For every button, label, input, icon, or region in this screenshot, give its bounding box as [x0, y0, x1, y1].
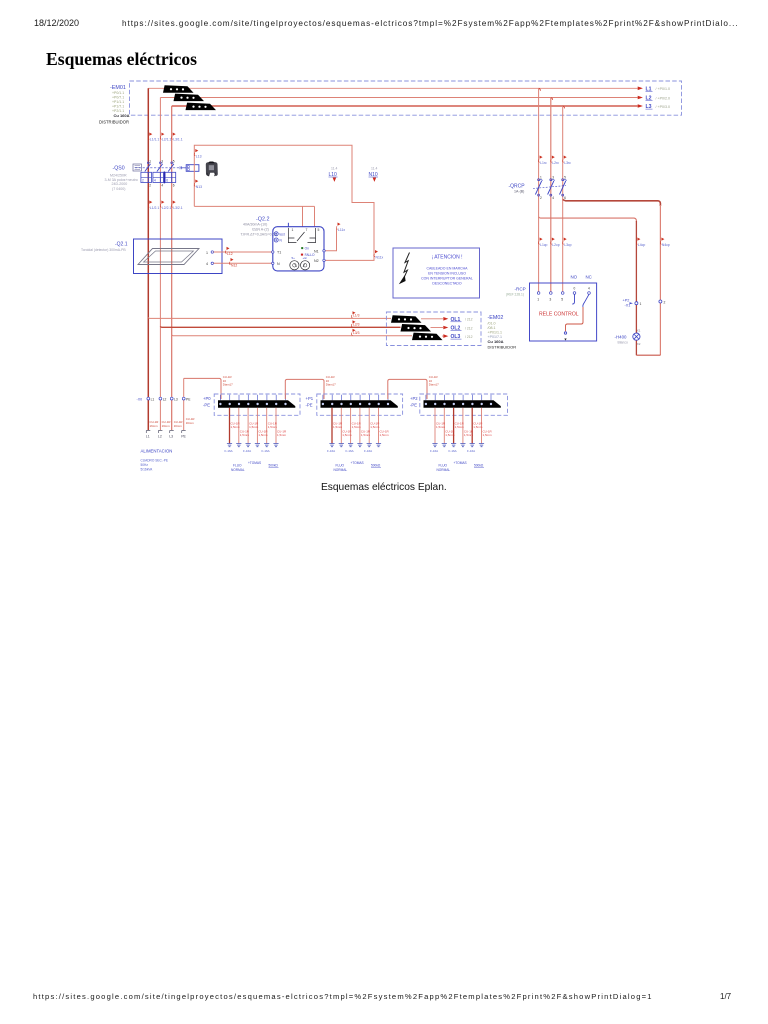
svg-text:1/7: 1/7 [720, 992, 732, 1001]
QS0 linkage dashed line [135, 167, 186, 169]
relay RCP body [530, 283, 597, 341]
svg-text:N12: N12 [231, 263, 237, 267]
svg-text:4: 4 [206, 262, 208, 266]
svg-text:L2/3: L2/3 [353, 323, 360, 327]
RCP pin 1 [537, 292, 540, 302]
feeder end terminal L3 [169, 431, 174, 439]
feeder end terminal PE [181, 431, 186, 439]
svg-text:L12: L12 [227, 252, 233, 256]
svg-text:I2ΔN A-(2): I2ΔN A-(2) [252, 227, 269, 231]
Q2.2 internal switch [288, 228, 315, 241]
svg-text:Esquemas eléctricos: Esquemas eléctricos [46, 49, 197, 69]
svg-text:-Q2.1: -Q2.1 [115, 241, 128, 247]
svg-text:Blanco: Blanco [618, 341, 628, 345]
EM02 busbar clamp 1 [391, 315, 422, 323]
svg-text:16mm: 16mm [162, 424, 171, 428]
svg-text:L1: L1 [151, 397, 155, 401]
QRCP linkage dashed [533, 186, 566, 189]
fuse divider accent [163, 172, 165, 184]
P0 load names [231, 461, 279, 472]
wire L2 bus [160, 97, 637, 99]
wire mark loop lower [194, 180, 202, 190]
wire lamp bottom return [636, 354, 660, 356]
label +P2 -PE [410, 396, 418, 408]
svg-text:6: 6 [564, 196, 566, 200]
P2 load names [437, 461, 485, 472]
wire branch to EM02 phase 1 [148, 317, 391, 318]
wire QRCP column 1 [538, 88, 540, 292]
wire label hook P2 [429, 375, 439, 387]
svg-text:https://sites.google.com/site/: https://sites.google.com/site/tingelproy… [122, 19, 739, 28]
wire hook feed P0 [184, 378, 221, 399]
svg-text:T1: T1 [277, 251, 281, 255]
svg-text:L2: L2 [158, 435, 162, 439]
svg-text:6: 6 [166, 179, 168, 183]
svg-text:16mm: 16mm [186, 421, 195, 425]
svg-text:L1cp: L1cp [540, 243, 547, 247]
P1 fuse labels [327, 449, 372, 453]
QS0 auxiliary box [180, 165, 199, 172]
svg-text:L1: L1 [146, 435, 150, 439]
svg-text:L1/1.1: L1/1.1 [150, 138, 160, 142]
P2 circuit labels row A [436, 422, 483, 430]
wire QRCP column 3 [562, 106, 564, 292]
svg-text:11.4: 11.4 [331, 167, 337, 171]
arrow OL1 [443, 317, 472, 323]
svg-text:1,5mm: 1,5mm [436, 425, 446, 429]
svg-text:L4cp: L4cp [638, 243, 645, 247]
svg-text:50Hz: 50Hz [141, 463, 149, 467]
P2 fuse labels [430, 449, 475, 453]
svg-text:3: 3 [161, 160, 163, 164]
svg-text:https://sites.google.com/site/: https://sites.google.com/site/tingelproy… [33, 992, 653, 1001]
P0 circuit labels row B [240, 430, 287, 438]
wire drop to Q2.2 pin 5 [314, 206, 316, 226]
terminal -X1 pin 2 [659, 300, 666, 304]
busbar clamp 3 [186, 103, 217, 111]
RCP pin NO [573, 287, 576, 295]
svg-text:1: 1 [640, 302, 642, 306]
wire L3 bus [172, 105, 638, 107]
terminal +P2 -X1 [623, 299, 642, 308]
wire mark L10 [336, 223, 345, 233]
wire label PE column [186, 417, 195, 425]
svg-text:L3/2.1: L3/2.1 [173, 206, 183, 210]
distributor EM02 dashed enclosure [386, 312, 481, 346]
panel P1 dashed enclosure [317, 394, 403, 415]
svg-text:+P1: +P1 [306, 396, 314, 401]
junction tick L2 to QRCP [551, 98, 553, 100]
svg-text:/ +P0/3.0: / +P0/3.0 [656, 105, 671, 109]
RCP internal red wire [566, 307, 584, 331]
svg-text:1: 1 [540, 176, 542, 180]
wire QRCP column 2 [550, 98, 552, 293]
wire drop to Q2.2 pin 1 [302, 206, 304, 226]
label +P0 -PE [203, 396, 211, 408]
svg-text:4: 4 [588, 287, 590, 291]
Q2.2 top pin stub [287, 223, 289, 228]
svg-text:+TOMAS: +TOMAS [248, 461, 261, 465]
node N10 [369, 167, 379, 182]
svg-text:1,5mm: 1,5mm [445, 433, 455, 437]
svg-text:16mm: 16mm [150, 424, 159, 428]
QS0 pole 2 [157, 160, 164, 172]
wire mark RCP 1 [538, 238, 547, 248]
terminal strip P2 [424, 395, 501, 408]
wire phase column L3 [171, 106, 173, 430]
svg-text:L1rc: L1rc [540, 161, 547, 165]
node L10 [329, 167, 338, 182]
wire clamp3 to OL3 [442, 335, 443, 337]
arrow OL3 [443, 334, 472, 340]
svg-text:-EM02: -EM02 [488, 315, 504, 321]
svg-text:L3: L3 [174, 397, 178, 401]
fuse box pole 1 [141, 172, 152, 182]
wire label L1 column [150, 420, 159, 428]
junction tick L3 to QRCP [563, 106, 565, 108]
svg-text:NO: NO [571, 275, 578, 280]
svg-text:+P1/7.1: +P1/7.1 [112, 105, 124, 109]
distributor EM01 dashed enclosure [130, 81, 682, 115]
svg-text:1,5mm: 1,5mm [249, 425, 259, 429]
wire label L2 column [162, 420, 171, 428]
svg-text:PE: PE [181, 435, 186, 439]
svg-text:500kΩ: 500kΩ [269, 464, 279, 468]
svg-text:1,5mm: 1,5mm [455, 425, 465, 429]
svg-text:/ 212: / 212 [465, 335, 473, 339]
svg-text:5: 5 [564, 176, 566, 180]
svg-text:3: 3 [549, 298, 551, 302]
wire mark lamp feed [636, 238, 645, 248]
svg-text:2: 2 [149, 184, 151, 188]
Q2.2 dial 2 [301, 256, 310, 270]
wire label L3 column [174, 420, 183, 428]
QS0 pole 1 [145, 160, 152, 172]
junction tick L1 to QRCP [539, 88, 541, 90]
svg-text:N1: N1 [314, 250, 319, 254]
svg-text:F-16A: F-16A [262, 449, 270, 453]
Q2.2 dial 1 [290, 256, 299, 270]
wire mark N feed [229, 258, 237, 267]
terminal strip P0 [218, 395, 295, 408]
RCP NC contact blade [583, 294, 589, 307]
RCP bottom pin [564, 332, 566, 341]
svg-text:/01.0: /01.0 [488, 322, 496, 326]
wire mark L3 upper [172, 133, 183, 142]
panel P2 dashed enclosure [420, 394, 508, 415]
svg-text:X2: X2 [637, 342, 641, 346]
svg-text:EN TENSION INCLUSO: EN TENSION INCLUSO [428, 272, 466, 276]
svg-text:Cu 160A: Cu 160A [114, 113, 130, 118]
svg-text:1,5mm: 1,5mm [258, 433, 268, 437]
svg-text:1,5mm: 1,5mm [231, 425, 241, 429]
svg-text:L3rc: L3rc [564, 161, 571, 165]
Q2.1 pin 1 [206, 251, 214, 255]
QRCP pole 2 [548, 176, 555, 200]
EM02 busbar clamp 3 [412, 333, 443, 341]
svg-text:L13: L13 [196, 155, 202, 159]
svg-text:Diam17: Diam17 [326, 383, 336, 387]
svg-text:1,5mm: 1,5mm [342, 433, 352, 437]
svg-text:+P1/1.1: +P1/1.1 [112, 100, 124, 104]
wire Q2.1 pin4 to Q2.2 N [214, 262, 273, 264]
svg-text:¡ ATENCION !: ¡ ATENCION ! [431, 255, 462, 261]
svg-text:L1/3: L1/3 [353, 313, 360, 317]
svg-text:(7 0400): (7 0400) [112, 187, 125, 191]
svg-text:F-16A: F-16A [346, 449, 354, 453]
Q2.2 pin N1 [314, 250, 325, 254]
svg-text:+P0: +P0 [203, 396, 211, 401]
fuse box pole 2 [153, 172, 164, 182]
wire mark EM02 feed 3 [351, 329, 359, 336]
svg-text:F-16A: F-16A [467, 449, 475, 453]
arrow L1 [638, 87, 643, 91]
wire PE column [183, 378, 185, 430]
svg-text:1,5mm: 1,5mm [464, 433, 474, 437]
warning panel frame [393, 248, 480, 298]
wire QRCP pole3 to lamp branch [563, 200, 661, 207]
svg-text:/ +P0/2.0: / +P0/2.0 [656, 96, 671, 100]
svg-text:L3cp: L3cp [564, 243, 571, 247]
svg-text:+TOMAS: +TOMAS [454, 461, 467, 465]
svg-text:DISTRIBUIDOR: DISTRIBUIDOR [99, 120, 129, 125]
wire mark EM02 feed 2 [351, 320, 359, 327]
wire hook feed P1 [285, 379, 324, 399]
QS0 pole 3 [168, 160, 175, 172]
svg-text:11.4: 11.4 [371, 167, 377, 171]
wire mark L2 upper [160, 133, 171, 142]
wire L1 bus [148, 87, 637, 89]
svg-text:-X0: -X0 [137, 397, 143, 401]
svg-text:16mm: 16mm [174, 424, 183, 428]
feeder end terminal L2 [158, 431, 163, 439]
svg-text:T.IFR.ΔT=0,3A/S=0,08: T.IFR.ΔT=0,3A/S=0,08 [241, 232, 277, 236]
control loop wire bottom [194, 205, 314, 207]
busbar clamp 2 [174, 94, 205, 102]
P2 load terminals [432, 444, 437, 447]
svg-text:-QS0: -QS0 [113, 165, 125, 171]
svg-text:+P0/7.1: +P0/7.1 [112, 96, 124, 100]
svg-text:Esquemas eléctricos Eplan.: Esquemas eléctricos Eplan. [321, 482, 447, 493]
wire hook feed P2 [388, 379, 427, 399]
P0 load wires [229, 408, 231, 444]
QS0 handle icon [133, 164, 142, 171]
svg-text:1,5mm: 1,5mm [240, 433, 250, 437]
svg-text:500kΩ: 500kΩ [371, 464, 381, 468]
P1 load wires [331, 408, 333, 444]
P1 load names [334, 461, 382, 472]
wire label hook P1 [326, 375, 336, 387]
control loop wire top [194, 145, 374, 260]
svg-text:L2rc: L2rc [552, 161, 559, 165]
svg-text:7: 7 [306, 228, 308, 232]
svg-text:NORMAL: NORMAL [437, 468, 451, 472]
svg-text:F-16A: F-16A [449, 449, 457, 453]
svg-text:+P01/1.1: +P01/1.1 [488, 331, 503, 335]
RCP NO contact [572, 294, 574, 304]
Q2.2 N button [274, 238, 282, 243]
wire mark QRCP 2 upper [551, 156, 560, 166]
transducer Q2.1 box [134, 239, 223, 274]
svg-text:F-16A: F-16A [243, 449, 251, 453]
svg-text:-H400: -H400 [615, 335, 628, 340]
svg-text:(REF:128.1): (REF:128.1) [506, 293, 524, 297]
arrow L2 [638, 96, 643, 100]
svg-text:L3/1.1: L3/1.1 [173, 138, 183, 142]
svg-text:18/12/2020: 18/12/2020 [34, 18, 79, 28]
svg-text:Cu 160A: Cu 160A [488, 339, 504, 344]
svg-text:4: 4 [161, 184, 163, 188]
wire mark T1 feed [225, 247, 232, 256]
svg-text:+P2: +P2 [410, 396, 418, 401]
wire mark RCP 3 [563, 238, 572, 248]
Q2.1 toroid plate symbol [138, 249, 199, 265]
wire Q2.1 pin1 to Q2.2 T1 [214, 251, 273, 253]
svg-text:/ +P0/1.0: / +P0/1.0 [656, 87, 671, 91]
svg-text:5: 5 [173, 160, 175, 164]
svg-text:N4cp: N4cp [662, 243, 670, 247]
svg-text:4: 4 [154, 179, 156, 183]
svg-text:ALIMENTACION: ALIMENTACION [141, 449, 173, 454]
svg-text:On: On [305, 247, 309, 251]
P2 load wires [434, 408, 436, 444]
label +P1 -PE [306, 396, 314, 408]
svg-text:L3: L3 [169, 435, 173, 439]
busbar clamp 1 [163, 85, 194, 93]
Q2.2 pin T1 [272, 251, 282, 255]
P0 load terminals [227, 444, 232, 447]
svg-text:40A/30mA-(10): 40A/30mA-(10) [243, 222, 267, 226]
svg-text:1,5mm: 1,5mm [473, 425, 483, 429]
svg-text:1,5mm: 1,5mm [277, 433, 287, 437]
fuse box pole 3 [165, 172, 176, 182]
svg-text:/ 212: / 212 [465, 318, 473, 322]
svg-text:0: 0 [574, 287, 576, 291]
svg-text:500kΩ: 500kΩ [474, 464, 484, 468]
Q2.2 indicator fault [301, 253, 315, 257]
svg-text:F-16A: F-16A [225, 449, 233, 453]
svg-text:X1: X1 [637, 329, 641, 333]
svg-text:Diam17: Diam17 [223, 383, 233, 387]
terminal block X0 row [137, 397, 192, 401]
svg-text:5: 5 [561, 298, 563, 302]
svg-text:CON INTERRUPTOR GENERAL: CON INTERRUPTOR GENERAL [421, 277, 473, 281]
wire branch to EM02 phase 3 [172, 335, 412, 336]
svg-text:+Θ: +Θ [303, 256, 308, 260]
P0 fuse labels [225, 449, 270, 453]
svg-text:1: 1 [206, 251, 208, 255]
svg-text:5: 5 [318, 228, 320, 232]
Q2.2 indicator On [301, 247, 309, 251]
Q2.1 pin 4 [206, 262, 214, 266]
svg-text:test: test [280, 232, 285, 236]
QRCP pole 1 [535, 176, 542, 200]
QRCP pole 3 [560, 176, 567, 200]
svg-text:L2/2.1: L2/2.1 [162, 206, 172, 210]
lamp H400 [615, 329, 641, 346]
wire L10 to Q2.2 N1 [324, 229, 337, 251]
svg-text:-PE: -PE [410, 403, 417, 408]
Q2.2 pin N left [272, 262, 280, 266]
svg-text:2: 2 [664, 300, 666, 304]
svg-text:+TOMAS: +TOMAS [351, 461, 364, 465]
wire label hook P0 [223, 375, 233, 387]
P0 circuit labels row A [231, 422, 278, 430]
wire branch to EM02 phase 2 [160, 326, 400, 327]
svg-text:5+: 5+ [292, 256, 296, 260]
svg-text:F-16A: F-16A [430, 449, 438, 453]
svg-text:+P0/1.1: +P0/1.1 [112, 91, 124, 95]
EM02 busbar clamp 2 [401, 324, 432, 332]
svg-text:24D-2000: 24D-2000 [112, 182, 128, 186]
svg-text:-RCP: -RCP [515, 287, 526, 292]
svg-text:F-16A: F-16A [327, 449, 335, 453]
wire QRCP pole1 branch to X1 [539, 217, 637, 222]
svg-text:DESCONECTADO: DESCONECTADO [432, 282, 462, 286]
arrow L3 [638, 104, 643, 108]
RCD Q2.2 body [273, 227, 324, 271]
svg-text:L11x: L11x [338, 228, 345, 232]
svg-text:RELE CONTROL: RELE CONTROL [539, 312, 579, 318]
svg-text:NC: NC [586, 275, 592, 280]
svg-text:N: N [277, 262, 280, 266]
svg-text:1,5mm: 1,5mm [370, 425, 380, 429]
wire clamp2 to OL2 [431, 327, 444, 329]
P2 circuit labels row B [445, 430, 492, 438]
svg-text:5/16kVA: 5/16kVA [141, 468, 154, 472]
wire mark L1 upper [148, 133, 159, 142]
arrow OL2 [443, 326, 472, 332]
RCP pin 5 [561, 292, 564, 302]
wire mark QRCP 3 upper [563, 156, 572, 166]
contactor photo icon [206, 162, 218, 177]
svg-text:DISTRIBUIDOR: DISTRIBUIDOR [488, 345, 517, 350]
svg-text:1,5mm: 1,5mm [333, 425, 343, 429]
wire mark EM02 feed 1 [351, 311, 359, 318]
svg-text:CABLEADO EN MARCHA: CABLEADO EN MARCHA [426, 267, 468, 271]
wire mark QRCP 1 upper [538, 156, 547, 166]
Q2.2 pin N2 [314, 259, 325, 263]
svg-text:N2: N2 [314, 259, 319, 263]
svg-text:3: 3 [552, 176, 554, 180]
svg-text:F-16A: F-16A [364, 449, 372, 453]
svg-text:L1/2.1: L1/2.1 [150, 206, 160, 210]
P1 load terminals [329, 444, 334, 447]
svg-text:N13: N13 [196, 185, 202, 189]
svg-text:/ 212: / 212 [465, 326, 473, 330]
wire clamp1 to OL1 [421, 318, 443, 320]
svg-text:+P2: +P2 [623, 299, 630, 303]
wire mark L2 lower [160, 201, 171, 211]
svg-text:1: 1 [292, 228, 294, 232]
svg-text:-PE: -PE [203, 403, 210, 408]
svg-text:1,5mm: 1,5mm [352, 425, 362, 429]
svg-text:2: 2 [142, 179, 144, 183]
Q2.2 test button [274, 232, 285, 237]
svg-text:N11x: N11x [376, 256, 384, 260]
svg-text:Toroidal (detector) 300mA-PB: Toroidal (detector) 300mA-PB [81, 248, 126, 252]
svg-text:CUADRO SEC.-PE: CUADRO SEC.-PE [141, 459, 168, 463]
terminal strip P1 [321, 395, 398, 408]
svg-text:Diam17: Diam17 [429, 383, 439, 387]
svg-text:2: 2 [540, 196, 542, 200]
svg-text:1: 1 [149, 160, 151, 164]
svg-text:1A-(B): 1A-(B) [514, 190, 524, 194]
wire phase column L2 [159, 98, 161, 431]
svg-text:L3/3: L3/3 [353, 331, 360, 335]
panel P0 dashed enclosure [214, 394, 300, 415]
svg-text:/08.1: /08.1 [488, 326, 496, 330]
